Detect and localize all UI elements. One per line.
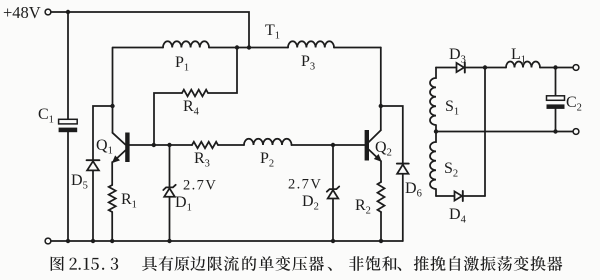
inductor L1 [506, 62, 540, 68]
node junction D5 bottom [91, 239, 95, 243]
wire C1 branch lower [67, 132, 69, 241]
wire R1 to ground rail [111, 212, 113, 241]
svg-text:2.7V: 2.7V [183, 178, 217, 194]
winding P1 [163, 41, 209, 47]
wire D2 branch [332, 145, 334, 241]
node junction D1 tap [167, 143, 171, 147]
node junction R2 bottom [379, 239, 383, 243]
node junction R4 bottom [152, 143, 156, 147]
diode D3 [457, 63, 465, 73]
node junction D2 bottom [331, 239, 335, 243]
node junction center tap [434, 129, 438, 133]
wire R4 branch [154, 48, 237, 146]
svg-text:+48V: +48V [3, 3, 41, 22]
wire Q1 emitter to R1 [111, 162, 113, 185]
winding S2 [430, 132, 436, 197]
transistor Q1 [113, 133, 130, 163]
wire C1 branch upper [67, 12, 69, 119]
node output- terminal [573, 129, 579, 135]
winding S1 [430, 68, 436, 132]
wire ground rail [51, 240, 403, 242]
transistor Q2 [365, 130, 381, 161]
wire C2 branch upper [555, 68, 557, 96]
zener diode D1 [163, 185, 175, 197]
wire top rail +48V [51, 12, 249, 48]
wire Q2 emitter to R2 [380, 161, 382, 182]
node junction C1 bottom [66, 239, 70, 243]
node junction C1 top [66, 10, 70, 14]
svg-text:2.7V: 2.7V [288, 177, 322, 193]
wire center tap line [436, 131, 573, 133]
wire D5 jog [93, 106, 113, 241]
wire secondary bottom line [436, 195, 485, 197]
diode D6 [397, 164, 409, 174]
node ground return terminal [45, 238, 51, 244]
node junction R4 top [235, 45, 239, 49]
node +48V input terminal [45, 9, 51, 15]
node junction D1 bottom [167, 239, 171, 243]
node junction D5 tap [110, 104, 114, 108]
resistor R2 [378, 182, 385, 212]
winding P3 [288, 41, 334, 47]
node junction D2 tap [331, 143, 335, 147]
wire rectifier bus [484, 68, 486, 197]
wire secondary top line [436, 67, 573, 69]
winding P2 [244, 139, 292, 145]
wire R2 to ground rail [380, 212, 382, 241]
node junction C2 top [553, 65, 557, 69]
resistor R1 [109, 185, 116, 212]
node junction C2 bottom [553, 129, 557, 133]
wire D6 jog [381, 106, 403, 241]
diode D5 [87, 160, 100, 170]
wire D1 branch [169, 145, 171, 241]
wire base coupling line [130, 144, 365, 146]
node output+ terminal [573, 65, 579, 71]
wire Q2 collector riser [380, 48, 382, 131]
node junction R1 bottom [110, 239, 114, 243]
caption figure title [51, 256, 563, 271]
diode D4 [455, 191, 463, 201]
wire primary top line [113, 47, 381, 49]
zener diode D2 [327, 187, 339, 199]
capacitor C2 [547, 96, 565, 109]
wire Q1 collector riser [112, 48, 114, 133]
wire C2 branch lower [555, 109, 557, 132]
resistor R4 [182, 90, 208, 97]
node junction rectifier bus top [483, 65, 487, 69]
capacitor C1 [59, 119, 78, 132]
node junction D6 tap [379, 104, 383, 108]
resistor R3 [192, 142, 218, 148]
node junction supply / windings [247, 45, 251, 49]
